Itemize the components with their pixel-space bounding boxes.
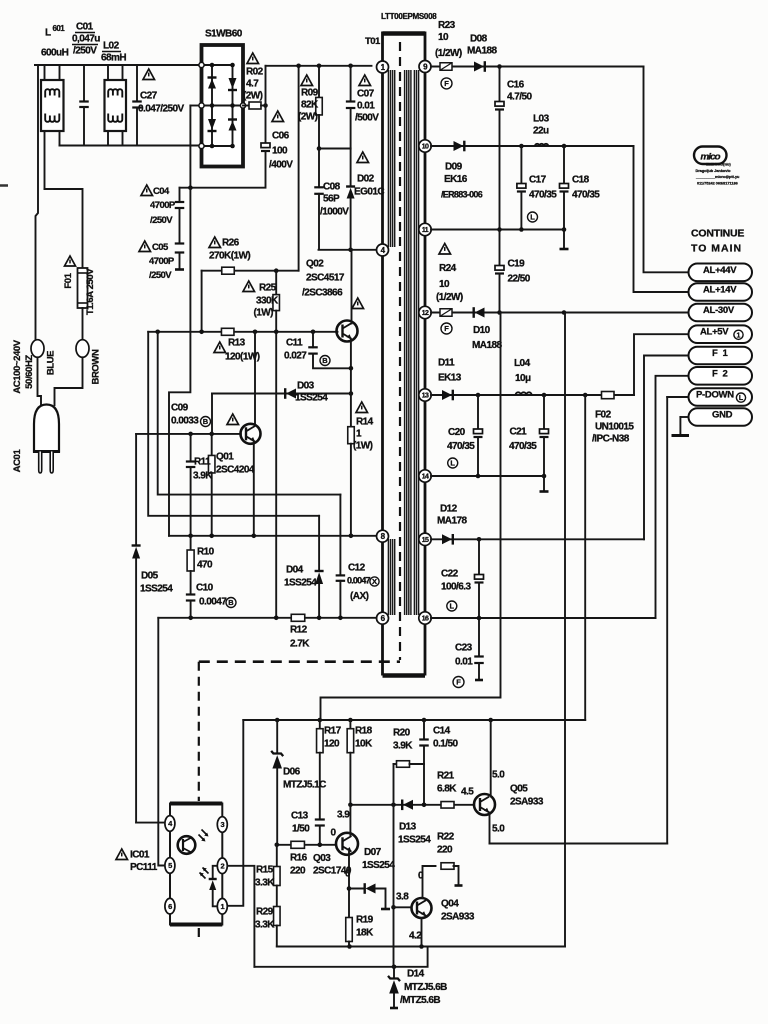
capacitor C05	[179, 208, 181, 244]
svg-text:C23: C23	[455, 642, 473, 653]
svg-text:L04: L04	[514, 358, 531, 369]
connector P-DOWN	[689, 388, 753, 406]
capacitor C23	[478, 618, 480, 657]
svg-text:R29: R29	[256, 906, 274, 917]
svg-text:50/60HZ: 50/60HZ	[24, 355, 35, 389]
svg-text:5: 5	[168, 861, 172, 870]
svg-text:0.1/50: 0.1/50	[433, 738, 458, 749]
svg-text:11: 11	[422, 227, 429, 234]
resistor R09	[318, 66, 320, 98]
wire blue line to plug	[35, 64, 38, 66]
transformer pin 12	[419, 306, 431, 318]
wire Q04 emitter to R22	[423, 866, 436, 898]
optocoupler IC01 box	[170, 802, 222, 806]
svg-text:C05: C05	[152, 242, 169, 253]
svg-text:AC01: AC01	[12, 449, 23, 473]
optocoupler pin 6	[165, 898, 175, 914]
transformer secondary winding outer	[413, 70, 415, 615]
svg-text:82K: 82K	[301, 99, 319, 110]
svg-text:C16: C16	[507, 79, 525, 90]
wire F2 riser	[656, 376, 689, 618]
svg-text:/250V: /250V	[149, 270, 172, 281]
diode D10	[475, 308, 485, 318]
svg-text:1SS254: 1SS254	[284, 577, 317, 588]
transformer pin 4	[377, 244, 389, 256]
svg-text:011/75242 063/8171186: 011/75242 063/8171186	[697, 181, 738, 185]
wire F02 to AL+5V riser	[634, 334, 689, 395]
svg-text:R13: R13	[228, 337, 246, 348]
optocoupler LED	[213, 866, 218, 879]
svg-text:F: F	[456, 678, 461, 687]
transformer pin 16	[419, 612, 431, 624]
svg-text:C22: C22	[441, 568, 459, 579]
wire L601 terminals	[44, 65, 46, 80]
svg-text:/ER883-006: /ER883-006	[441, 190, 483, 200]
diode D03	[286, 389, 296, 399]
isolation dashed boundary horizontal	[199, 660, 400, 663]
svg-text:5.0: 5.0	[492, 769, 505, 780]
svg-text:220: 220	[290, 865, 306, 876]
svg-text:AL+44V: AL+44V	[703, 265, 737, 276]
diode D02	[350, 149, 352, 187]
svg-text:C19: C19	[508, 258, 526, 269]
wire rail A from R13 bus	[158, 332, 341, 495]
svg-text:6.8K: 6.8K	[437, 783, 457, 794]
wire R13 bus / Q02 base	[148, 331, 337, 333]
svg-text:Q01: Q01	[216, 451, 234, 462]
capacitor C10	[186, 593, 196, 595]
wire pin16 row F2	[431, 617, 656, 619]
resistor R15	[276, 845, 278, 867]
capacitor C07	[350, 66, 352, 102]
svg-text:F02: F02	[595, 409, 612, 420]
diode D11	[442, 390, 452, 400]
transformer pin 10	[419, 140, 431, 152]
wire pin9 row +44V	[431, 66, 644, 68]
warning triangle R26	[209, 237, 221, 248]
svg-text:D06: D06	[283, 766, 301, 777]
svg-text:EK13: EK13	[438, 372, 462, 383]
svg-text:(2W): (2W)	[298, 111, 318, 122]
svg-text:D09: D09	[445, 161, 463, 172]
transformer primary winding top	[387, 70, 389, 247]
inductor L02 common-mode choke	[105, 80, 127, 131]
svg-text:D11: D11	[438, 357, 455, 368]
wire bottom rail2	[254, 947, 427, 967]
svg-text:L: L	[739, 395, 744, 402]
svg-text:AL-30V: AL-30V	[703, 305, 735, 316]
resistor R14	[348, 427, 355, 444]
svg-text:R25: R25	[259, 282, 277, 293]
optocoupler light arrows lower	[200, 868, 209, 879]
optocoupler pin 4	[165, 816, 175, 832]
warning triangle D02	[357, 152, 369, 163]
capacitor C11	[312, 332, 314, 348]
svg-text:2: 2	[221, 862, 225, 871]
svg-text:MTZJ5.6B: MTZJ5.6B	[404, 982, 447, 993]
wire top AC bus	[35, 64, 202, 66]
wire Q05 collector row to P-DOWN	[490, 843, 668, 845]
svg-text:C09: C09	[171, 402, 189, 413]
svg-text:R23: R23	[438, 20, 456, 31]
svg-text:470/35: 470/35	[529, 189, 557, 200]
resistor R10	[190, 536, 192, 549]
circled L C20	[448, 458, 458, 468]
wire +44V riser to connector	[644, 67, 689, 273]
resistor R20	[394, 763, 397, 765]
capacitor C09	[190, 434, 192, 462]
transformer pin 15	[419, 533, 431, 545]
svg-text:R15: R15	[256, 864, 274, 875]
svg-text:10: 10	[439, 279, 450, 290]
transformer pin 8	[377, 530, 389, 542]
transistor Q02 2SC4517	[337, 321, 358, 342]
balloon BROWN	[76, 340, 89, 358]
svg-text:4700P: 4700P	[149, 256, 175, 267]
svg-text:3.9K: 3.9K	[393, 740, 413, 751]
svg-text:D02: D02	[357, 173, 375, 184]
wire pin6 row	[158, 617, 376, 619]
circled L C22	[447, 601, 457, 611]
inductor L04	[516, 392, 532, 395]
svg-text:ELEKTRO(nic): ELEKTRO(nic)	[706, 163, 732, 167]
wire R09-C07 link	[319, 148, 351, 150]
svg-text:2SC4517: 2SC4517	[306, 272, 345, 283]
warning triangle C05	[139, 241, 151, 252]
resistor R16	[291, 841, 305, 848]
svg-text:BROWN: BROWN	[91, 349, 102, 384]
svg-text:(1W): (1W)	[254, 307, 274, 318]
svg-text:T01: T01	[365, 36, 381, 47]
transformer pin 14	[419, 470, 431, 482]
svg-text:10: 10	[422, 144, 429, 151]
wire P-DOWN riser	[667, 396, 688, 398]
svg-text:/2SC3866: /2SC3866	[302, 287, 343, 298]
svg-text:TO MAIN: TO MAIN	[691, 243, 742, 255]
optocoupler pin 1	[217, 899, 227, 915]
svg-text:470/35: 470/35	[509, 441, 537, 452]
svg-text:B: B	[228, 598, 234, 607]
wire Q04 collector	[421, 918, 423, 947]
svg-text:Dragoljub Jankovic: Dragoljub Jankovic	[696, 169, 731, 173]
resistor R22	[441, 863, 454, 870]
wire bypass link to regulator rail	[321, 313, 501, 721]
svg-text:D03: D03	[297, 380, 315, 391]
capacitor C22	[478, 539, 480, 574]
transformer pin 13	[419, 389, 431, 401]
wire +5V riser to regulator rail	[584, 395, 586, 720]
connector AL-30V	[689, 304, 753, 322]
svg-text:R26: R26	[222, 237, 240, 248]
warning triangle IC01	[116, 849, 128, 860]
warning triangle C07	[359, 75, 371, 86]
svg-text:L02: L02	[103, 40, 120, 51]
warning triangle R14	[356, 402, 368, 413]
svg-text:2SA933: 2SA933	[441, 911, 475, 922]
wire D13 row	[350, 804, 473, 806]
wire rail B from R13 bus	[148, 332, 319, 516]
svg-text:10K: 10K	[355, 738, 373, 749]
svg-text:1: 1	[737, 332, 741, 339]
svg-text:C11: C11	[286, 337, 303, 348]
circled L C17	[528, 212, 538, 222]
warning triangle F01	[65, 256, 76, 266]
svg-text:0.0047: 0.0047	[199, 596, 227, 607]
svg-text:L: L	[450, 459, 455, 468]
svg-text:100: 100	[272, 145, 288, 156]
bridge junctions	[210, 63, 215, 68]
svg-text:R20: R20	[393, 727, 411, 738]
svg-text:/250V: /250V	[73, 45, 97, 56]
svg-text:Q04: Q04	[441, 898, 459, 909]
wire DC+ rail to pin1	[266, 65, 372, 67]
svg-text:IC01: IC01	[130, 849, 150, 860]
svg-text:B: B	[203, 417, 209, 426]
optocoupler light arrows upper	[199, 830, 208, 841]
svg-text:MA188: MA188	[472, 340, 502, 351]
svg-text:3: 3	[221, 820, 225, 829]
svg-text:EK16: EK16	[444, 174, 468, 185]
svg-text:R22: R22	[437, 831, 455, 842]
svg-text:F 1: F 1	[712, 348, 729, 359]
capacitor C21	[543, 395, 545, 429]
svg-text:D14: D14	[407, 968, 425, 979]
connector F2	[689, 367, 753, 385]
svg-text:6: 6	[168, 902, 172, 911]
svg-text:F: F	[444, 79, 449, 88]
wire pin4 row from D05 rail	[136, 822, 164, 824]
wire pin11 row	[431, 229, 564, 231]
resistor R17	[319, 720, 321, 728]
wire bottom AC bus	[60, 145, 202, 147]
svg-text:0,047u: 0,047u	[72, 33, 100, 44]
transformer pin 9	[419, 61, 431, 73]
svg-text:1SS254: 1SS254	[398, 834, 431, 845]
svg-text:AC100~240V: AC100~240V	[12, 339, 23, 393]
svg-text:13: 13	[422, 393, 429, 400]
svg-text:330K: 330K	[256, 295, 279, 306]
svg-text:_________micro@ptt.yu: _________micro@ptt.yu	[695, 175, 740, 179]
svg-text:1/50: 1/50	[292, 823, 310, 834]
svg-text:220: 220	[437, 844, 453, 855]
bridge rectifier S1WB60 box	[202, 45, 244, 167]
transformer secondary winding inner	[404, 70, 406, 615]
wire pin15 row F1	[431, 538, 644, 540]
svg-text:22u: 22u	[533, 125, 549, 136]
transistor Q01 2SC4204	[254, 332, 256, 426]
svg-text:C08: C08	[323, 181, 341, 192]
inductor L601 common-mode choke	[41, 80, 64, 131]
svg-text:C17: C17	[529, 174, 547, 185]
circled F R23	[441, 78, 452, 89]
resistor R21	[441, 802, 454, 809]
svg-text:(AX): (AX)	[350, 591, 369, 602]
bridge diode bottom-right	[228, 118, 237, 120]
transformer isolation dashed line	[399, 42, 401, 660]
isolation dashed boundary vertical	[198, 662, 200, 801]
wire bottom rail1	[277, 946, 565, 948]
svg-text:T1.6A 250V: T1.6A 250V	[85, 268, 96, 315]
wire regulator top rail	[243, 719, 585, 721]
wire pin12 row -30V	[431, 312, 689, 314]
resistor R24	[440, 309, 452, 317]
svg-text:16: 16	[422, 616, 429, 623]
svg-text:Q05: Q05	[510, 783, 528, 794]
bridge diode bottom-left	[208, 119, 216, 130]
bridge edge node circles	[199, 62, 204, 67]
svg-text:D13: D13	[399, 821, 417, 832]
svg-text:R14: R14	[356, 416, 374, 427]
svg-text:Q03: Q03	[313, 853, 331, 864]
svg-text:C27: C27	[140, 90, 158, 101]
svg-text:Q02: Q02	[306, 258, 324, 269]
diode D13	[403, 800, 413, 810]
wire AC mid tap to C06 return	[190, 105, 201, 107]
bridge diode top-left	[208, 76, 217, 78]
capacitor C06	[261, 143, 270, 148]
svg-text:4700P: 4700P	[150, 200, 176, 211]
wire C06-return jog to pin8 rail	[169, 188, 190, 536]
warning triangle R02	[247, 53, 259, 64]
svg-text:R11: R11	[194, 456, 211, 467]
warning triangle R24	[439, 244, 451, 255]
svg-text:5.0: 5.0	[492, 823, 505, 834]
svg-text:/IPC-N38: /IPC-N38	[592, 433, 630, 444]
svg-text:C10: C10	[196, 582, 214, 593]
svg-text:C01: C01	[76, 21, 94, 32]
svg-text:1SS254: 1SS254	[295, 392, 328, 403]
resistor R18	[349, 720, 351, 728]
svg-text:3.3K: 3.3K	[255, 919, 275, 930]
svg-text:(1W): (1W)	[353, 440, 373, 451]
connector AL+14V	[689, 283, 753, 301]
wire Q01 base row	[136, 433, 241, 435]
svg-text:/1000V: /1000V	[320, 206, 349, 217]
svg-text:12: 12	[422, 310, 429, 317]
svg-text:0.0047: 0.0047	[347, 576, 371, 586]
wire L02 terminals	[107, 65, 109, 80]
svg-text:MA188: MA188	[467, 45, 497, 56]
svg-text:L: L	[530, 213, 535, 222]
svg-text:1: 1	[221, 902, 225, 911]
svg-text:S1WB60: S1WB60	[205, 28, 243, 39]
resistor R13	[221, 328, 234, 335]
capacitor C18	[563, 146, 565, 184]
svg-text:R02: R02	[246, 66, 264, 77]
svg-text:1SS254: 1SS254	[362, 860, 395, 871]
svg-text:D04: D04	[286, 564, 304, 575]
svg-text:F01: F01	[63, 272, 74, 288]
svg-text:UN10015: UN10015	[595, 421, 634, 432]
resistor R12	[291, 614, 305, 621]
circled F C23	[453, 677, 464, 688]
transformer T01 outline	[383, 31, 426, 36]
wire DC+ riser	[265, 66, 267, 143]
capacitor C19	[499, 230, 501, 266]
svg-text:C07: C07	[357, 88, 375, 99]
warning triangle C27	[143, 69, 155, 80]
diode D04	[318, 516, 320, 571]
capacitor C27	[136, 65, 138, 102]
svg-text:4.5: 4.5	[461, 786, 474, 797]
resistor R02	[243, 105, 249, 107]
wire rail to IC01 pin1	[227, 720, 243, 906]
connector F1	[689, 347, 753, 365]
resistor R25	[275, 271, 277, 295]
transformer primary winding bottom	[387, 539, 389, 615]
svg-text:470/35: 470/35	[572, 189, 600, 200]
svg-text:/MTZ5.6B: /MTZ5.6B	[400, 995, 440, 1006]
transistor Q03 2SC1740	[336, 833, 358, 855]
svg-text:BLUE: BLUE	[46, 351, 57, 375]
wire pin5 link to pin6 row	[158, 618, 164, 866]
wire R26 left drop	[201, 271, 203, 332]
circled F R24	[441, 323, 452, 334]
svg-text:(2W): (2W)	[243, 90, 263, 101]
wire pin13 row +5V	[431, 394, 602, 396]
svg-text:C04: C04	[153, 186, 170, 197]
svg-text:2SA933: 2SA933	[510, 796, 544, 807]
capacitor C13	[315, 818, 325, 820]
svg-text:CONTINUE: CONTINUE	[691, 228, 744, 240]
connector AL+5V1	[689, 325, 753, 343]
svg-text:0.01: 0.01	[455, 656, 473, 667]
svg-text:3.8: 3.8	[396, 891, 409, 902]
bridge internal wires	[202, 64, 233, 66]
wire F1 riser	[644, 356, 689, 540]
svg-text:0.0033: 0.0033	[171, 415, 199, 426]
fuse F01	[78, 268, 88, 308]
svg-text:C14: C14	[433, 725, 451, 736]
svg-text:/250V: /250V	[150, 215, 173, 226]
svg-text:R24: R24	[439, 263, 457, 274]
optocoupler phototransistor	[178, 836, 196, 854]
warning triangle Q02	[352, 298, 364, 309]
capacitor C01	[83, 65, 85, 102]
svg-text:F 2: F 2	[712, 368, 729, 379]
svg-text:(1/2W): (1/2W)	[436, 292, 463, 303]
svg-text:0.047/250V: 0.047/250V	[138, 103, 185, 114]
wire +14V riser to connector	[634, 146, 689, 292]
svg-text:R09: R09	[301, 87, 319, 98]
svg-text:R18: R18	[355, 725, 373, 736]
capacitor C04	[179, 188, 181, 202]
capacitor C14	[423, 720, 425, 740]
svg-text:0.027: 0.027	[284, 350, 307, 361]
svg-text:D10: D10	[473, 325, 491, 336]
svg-text:18K: 18K	[356, 927, 374, 938]
svg-text:56P: 56P	[323, 193, 340, 204]
warning triangle C04	[141, 185, 153, 196]
svg-text:D08: D08	[470, 33, 488, 44]
inductor L03	[535, 144, 548, 146]
svg-text:C20: C20	[448, 427, 466, 438]
capacitor C20	[477, 395, 479, 429]
transistor Q04 2SA933	[412, 898, 432, 918]
svg-text:C18: C18	[572, 174, 590, 185]
diode D03 row	[212, 393, 351, 395]
svg-text:D12: D12	[440, 503, 458, 514]
svg-text:22/50: 22/50	[508, 273, 531, 284]
capacitor C08	[318, 149, 320, 188]
balloon BLUE	[31, 340, 44, 358]
wire GND stub and ground symbol	[680, 416, 688, 418]
svg-text:F: F	[444, 324, 449, 333]
svg-text:470: 470	[197, 559, 213, 570]
wire pin8 rail	[169, 535, 377, 537]
svg-text:C21: C21	[510, 426, 528, 437]
svg-text:AL+14V: AL+14V	[703, 285, 737, 296]
